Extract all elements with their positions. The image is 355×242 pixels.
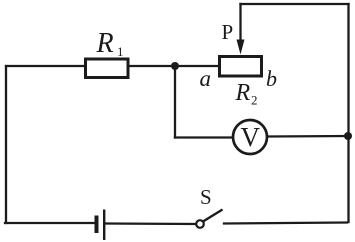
switch S lever <box>203 210 223 222</box>
wire node A to R2 terminal a <box>175 65 218 67</box>
svg-text:2: 2 <box>251 93 258 108</box>
svg-text:R: R <box>235 80 251 106</box>
svg-text:S: S <box>200 185 212 209</box>
wire voltmeter right to node B <box>268 135 349 138</box>
node A junction dot <box>171 62 179 70</box>
wire switch to bottom right <box>224 223 347 224</box>
potentiometer R2 wiper arrowhead <box>237 40 245 55</box>
wire top-left horizontal to R1 <box>6 65 84 67</box>
node B junction dot <box>344 132 352 140</box>
svg-text:a: a <box>200 66 212 91</box>
wire node A down to voltmeter <box>174 66 176 138</box>
resistor R1 <box>86 59 129 78</box>
battery positive plate (long thin) <box>103 210 105 241</box>
potentiometer R2 body <box>220 57 262 77</box>
switch S pivot circle <box>196 220 204 228</box>
wire to voltmeter left <box>175 136 233 138</box>
svg-text:1: 1 <box>117 44 124 59</box>
svg-text:b: b <box>266 66 277 91</box>
battery negative plate (short thick) <box>95 216 99 234</box>
voltmeter V body <box>233 120 267 154</box>
svg-text:P: P <box>222 20 234 44</box>
wire battery to switch <box>106 222 196 225</box>
svg-text:R: R <box>96 28 114 59</box>
wire bottom left to battery <box>5 222 95 224</box>
svg-text:V: V <box>241 122 261 152</box>
wire wiper riser P to top <box>239 4 241 42</box>
wire left vertical <box>5 66 7 223</box>
wire top horizontal <box>241 3 349 5</box>
wire right vertical <box>347 4 349 222</box>
wire R1 to node A <box>129 65 175 67</box>
